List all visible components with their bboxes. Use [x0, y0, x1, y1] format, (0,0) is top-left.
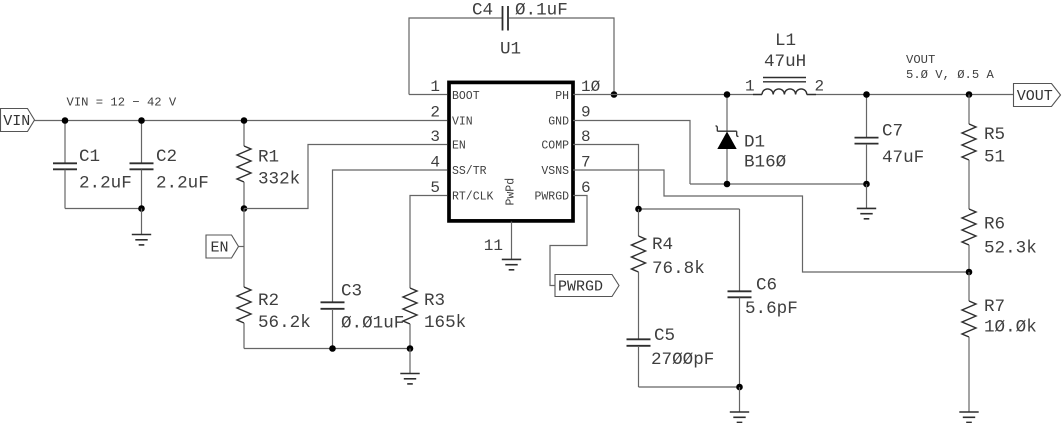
- resistor R3: [410, 196, 447, 289]
- junction dot COMP/R4/C6: [635, 206, 642, 213]
- svg-text:COMP: COMP: [541, 140, 569, 153]
- wire VIN rail from VIN flag to U1 pin 2: [35, 120, 448, 122]
- svg-text:L1: L1: [775, 31, 796, 51]
- svg-text:PWRGD: PWRGD: [558, 279, 603, 296]
- ground below C7: [866, 184, 868, 208]
- svg-text:56.2k: 56.2k: [258, 313, 311, 333]
- svg-text:PWRGD: PWRGD: [534, 191, 569, 204]
- capacitor C4 boot: [409, 18, 502, 95]
- wire PH output rail: [573, 94, 762, 96]
- junction dot D1 bottom: [724, 181, 731, 188]
- junction dot R3 bottom: [407, 345, 414, 352]
- svg-text:Ø.1uF: Ø.1uF: [515, 1, 568, 21]
- wire U1 pin 8 COMP down to R4: [573, 145, 639, 210]
- node PWRGD flag: [555, 275, 619, 297]
- svg-text:2.2uF: 2.2uF: [79, 174, 132, 194]
- svg-text:EN: EN: [211, 240, 229, 257]
- svg-text:8: 8: [581, 128, 591, 146]
- svg-text:R1: R1: [258, 148, 279, 168]
- wire C5 to C6 bottom: [639, 386, 740, 388]
- svg-text:2: 2: [815, 78, 825, 96]
- wire U1 pin 11 to ground: [511, 222, 513, 260]
- svg-text:76.8k: 76.8k: [652, 259, 705, 279]
- junction dot R6/R7 feedback: [966, 269, 973, 276]
- wire COMP node to C6: [639, 208, 740, 210]
- junction dot C3 bottom: [329, 345, 336, 352]
- svg-text:C5: C5: [654, 326, 675, 346]
- resistor R6: [962, 209, 976, 245]
- wire R2 bottom rail to R3: [244, 348, 410, 350]
- wire EN flag to R1/R2 net: [239, 246, 245, 248]
- svg-text:R6: R6: [984, 215, 1005, 235]
- svg-text:6: 6: [581, 179, 591, 197]
- svg-text:Ø.Ø1uF: Ø.Ø1uF: [341, 314, 404, 334]
- ground below R7: [959, 411, 978, 413]
- junction dot C2 top: [138, 117, 145, 124]
- svg-text:C4: C4: [472, 1, 493, 21]
- node EN flag: [206, 235, 239, 258]
- svg-text:VSNS: VSNS: [541, 165, 569, 178]
- svg-text:5.6pF: 5.6pF: [745, 299, 798, 319]
- svg-text:7: 7: [581, 154, 591, 172]
- svg-text:VIN: VIN: [452, 116, 473, 129]
- junction dot C2 bottom: [138, 205, 145, 212]
- wire U1 pin 9 GND to D1 anode rail: [573, 121, 690, 185]
- svg-text:C6: C6: [756, 276, 777, 296]
- resistor R1: [243, 121, 245, 147]
- svg-text:R7: R7: [984, 297, 1005, 317]
- svg-text:C2: C2: [156, 147, 177, 167]
- svg-text:9: 9: [581, 104, 591, 122]
- diode D1 schottky: [726, 95, 728, 133]
- svg-text:R5: R5: [984, 125, 1005, 145]
- svg-text:27ØØpF: 27ØØpF: [651, 350, 714, 370]
- svg-text:R3: R3: [424, 291, 445, 311]
- svg-text:VIN = 12 − 42 V: VIN = 12 − 42 V: [67, 96, 177, 110]
- svg-text:2.2uF: 2.2uF: [156, 174, 209, 194]
- svg-text:C1: C1: [79, 147, 100, 167]
- svg-text:R2: R2: [258, 291, 279, 311]
- svg-text:R4: R4: [652, 235, 673, 255]
- inductor L1: [753, 94, 762, 96]
- junction dot R1 top: [241, 117, 248, 124]
- svg-text:VOUT: VOUT: [906, 53, 935, 67]
- svg-text:52.3k: 52.3k: [984, 239, 1037, 259]
- svg-text:PH: PH: [555, 90, 569, 103]
- wire U1 pin 1 BOOT stub: [409, 94, 447, 96]
- svg-text:VOUT: VOUT: [1017, 88, 1053, 105]
- wire R1/R2 junction to U1 pin 3 EN: [244, 145, 447, 209]
- junction dot R1 bottom: [241, 205, 248, 212]
- wire D1/C7 bottom rail: [690, 183, 867, 185]
- ground below C2: [141, 209, 143, 235]
- capacitor C3: [333, 170, 448, 302]
- ground below U1 pin 11: [502, 258, 521, 260]
- capacitor C7: [866, 95, 868, 138]
- ground below R3: [409, 349, 411, 374]
- junction dot C7 top: [863, 91, 870, 98]
- wire U1 pin 6 PWRGD to flag: [550, 196, 587, 286]
- ground below C5/C6: [739, 387, 741, 412]
- svg-text:BOOT: BOOT: [452, 90, 480, 103]
- svg-text:1Ø.Øk: 1Ø.Øk: [984, 318, 1037, 338]
- junction dot C4/PH: [611, 91, 618, 98]
- resistor R4: [638, 209, 640, 236]
- resistor R5: [968, 95, 970, 125]
- svg-text:C3: C3: [341, 282, 362, 302]
- svg-text:4: 4: [430, 154, 440, 172]
- svg-text:11: 11: [484, 237, 503, 255]
- svg-text:5.Ø V, Ø.5 A: 5.Ø V, Ø.5 A: [906, 68, 994, 82]
- wire C1 to C2 bottom: [65, 208, 142, 210]
- svg-text:VIN: VIN: [3, 113, 30, 130]
- svg-text:51: 51: [984, 148, 1005, 168]
- junction dot C1 top: [62, 117, 69, 124]
- wire U1 pin 7 VSNS feedback to R6/R7 divider: [573, 170, 969, 272]
- svg-text:3: 3: [430, 128, 440, 146]
- capacitor C1: [64, 121, 66, 164]
- resistor R7: [968, 272, 970, 301]
- svg-text:B16Ø: B16Ø: [744, 153, 787, 173]
- resistor R2: [243, 209, 245, 288]
- svg-text:RT/CLK: RT/CLK: [452, 191, 494, 204]
- op-amp U1 regulator body: [449, 82, 573, 221]
- junction dot D1 top: [724, 91, 731, 98]
- node VOUT flag: [1014, 84, 1061, 107]
- svg-text:GND: GND: [548, 116, 569, 129]
- svg-text:47uH: 47uH: [764, 52, 806, 72]
- svg-text:EN: EN: [452, 140, 466, 153]
- svg-text:1: 1: [430, 78, 440, 96]
- svg-text:1: 1: [745, 78, 755, 96]
- capacitor C6: [739, 209, 741, 291]
- svg-text:332k: 332k: [258, 170, 300, 190]
- svg-text:PwPd: PwPd: [505, 178, 518, 206]
- svg-text:SS/TR: SS/TR: [452, 165, 487, 178]
- svg-text:47uF: 47uF: [882, 148, 924, 168]
- svg-text:165k: 165k: [424, 313, 466, 333]
- junction dot C7 bottom: [863, 181, 870, 188]
- capacitor C2: [141, 121, 143, 164]
- svg-text:U1: U1: [500, 40, 521, 60]
- junction dot C5/C6 ground: [736, 384, 743, 391]
- svg-text:C7: C7: [882, 122, 903, 142]
- svg-text:5: 5: [430, 179, 440, 197]
- node VIN flag: [1, 109, 35, 132]
- svg-text:2: 2: [430, 104, 440, 122]
- junction dot VOUT/R5: [966, 91, 973, 98]
- svg-text:D1: D1: [744, 133, 765, 153]
- svg-text:1Ø: 1Ø: [581, 78, 601, 96]
- capacitor C5: [627, 338, 651, 340]
